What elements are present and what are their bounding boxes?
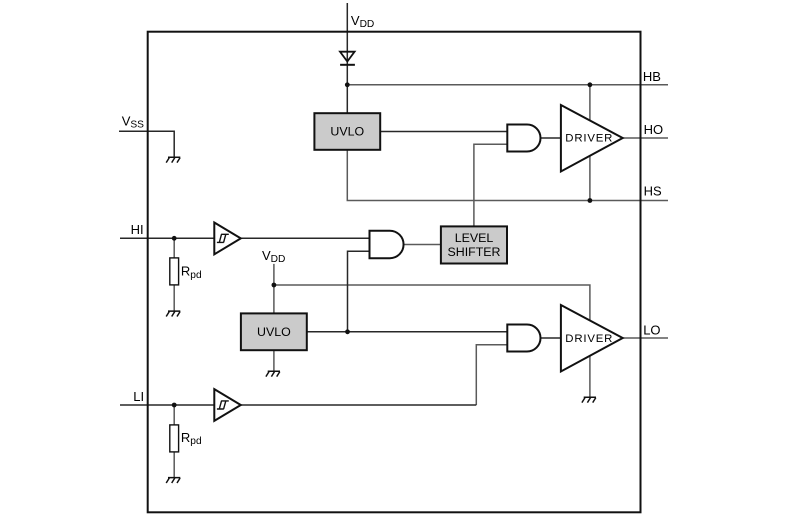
svg-text:UVLO: UVLO — [257, 325, 291, 339]
svg-text:DRIVER: DRIVER — [565, 133, 613, 145]
svg-text:LO: LO — [643, 323, 660, 338]
svg-text:LI: LI — [133, 389, 144, 404]
svg-text:HS: HS — [644, 184, 662, 199]
svg-text:HO: HO — [644, 122, 664, 137]
svg-text:DRIVER: DRIVER — [565, 333, 613, 345]
svg-text:LEVEL: LEVEL — [455, 231, 494, 245]
svg-text:HI: HI — [131, 222, 144, 237]
svg-text:HB: HB — [643, 69, 661, 84]
svg-text:UVLO: UVLO — [330, 125, 364, 139]
svg-text:SHIFTER: SHIFTER — [447, 245, 500, 259]
